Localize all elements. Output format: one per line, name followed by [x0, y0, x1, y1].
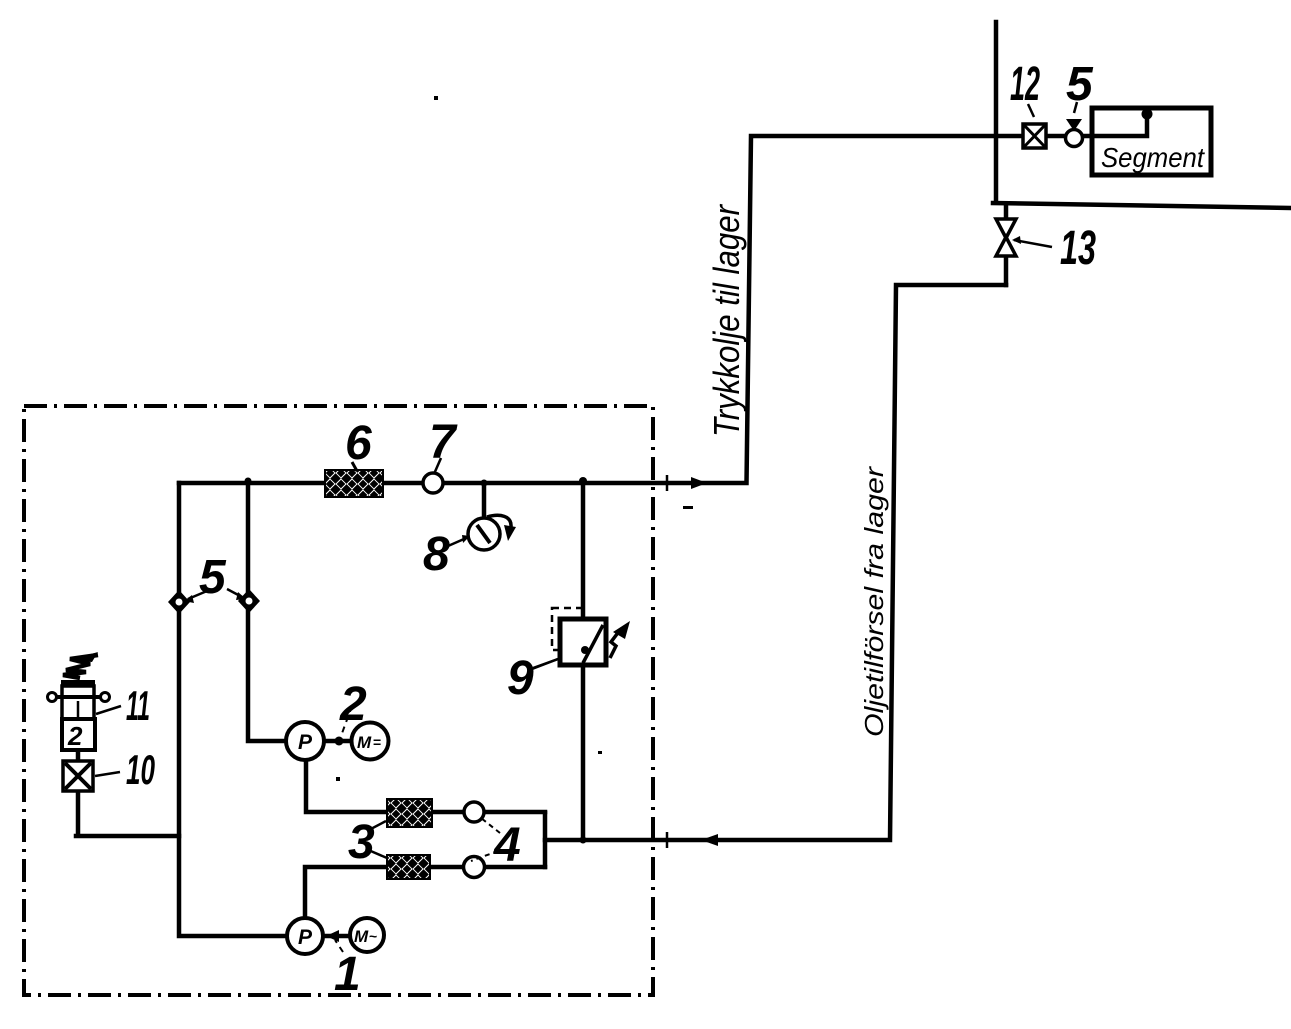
- svg-text:Trykkolje til lager: Trykkolje til lager: [706, 203, 747, 437]
- svg-text:~: ~: [369, 928, 377, 944]
- svg-text:M: M: [354, 927, 369, 946]
- svg-text:12: 12: [1010, 58, 1040, 111]
- svg-text:5: 5: [1066, 58, 1094, 111]
- svg-text:5: 5: [199, 551, 227, 604]
- svg-text:9: 9: [507, 652, 534, 705]
- svg-text:10: 10: [126, 746, 155, 793]
- svg-text:6: 6: [345, 417, 372, 470]
- svg-text:13: 13: [1060, 222, 1096, 275]
- svg-text:P: P: [298, 926, 313, 949]
- svg-text:7: 7: [429, 416, 458, 469]
- svg-text:2: 2: [67, 721, 83, 751]
- svg-text:Segment: Segment: [1101, 142, 1205, 173]
- svg-text:3: 3: [348, 816, 375, 869]
- svg-text:8: 8: [423, 528, 450, 581]
- svg-text:P: P: [298, 731, 313, 754]
- svg-text:1: 1: [334, 948, 361, 1001]
- svg-text:Oljetilförsel fra lager: Oljetilförsel fra lager: [859, 465, 889, 737]
- svg-text:2: 2: [339, 678, 367, 731]
- svg-text:4: 4: [493, 819, 521, 872]
- svg-text:11: 11: [126, 682, 150, 729]
- svg-text:M: M: [357, 733, 372, 752]
- svg-text:=: =: [373, 734, 381, 750]
